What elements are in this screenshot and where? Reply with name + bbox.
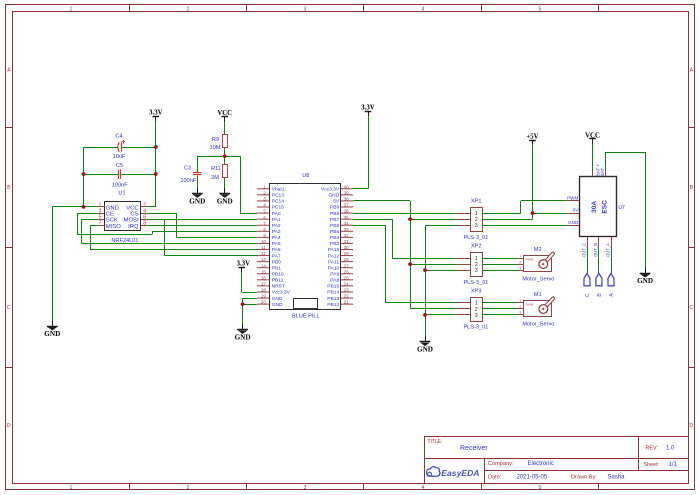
svg-text:SCK: SCK <box>106 218 118 224</box>
svg-text:26: 26 <box>344 269 350 274</box>
svg-text:PA0: PA0 <box>272 211 281 217</box>
svg-text:18: 18 <box>261 288 267 293</box>
svg-text:XP1: XP1 <box>471 199 482 205</box>
svg-text:TITLE:: TITLE: <box>428 439 443 445</box>
svg-text:10M: 10M <box>210 145 221 151</box>
svg-text:R9: R9 <box>212 137 219 143</box>
svg-text:24: 24 <box>344 282 350 287</box>
svg-text:5V: 5V <box>333 199 340 205</box>
svg-text:GND: GND <box>328 193 339 199</box>
svg-text:20: 20 <box>261 300 267 305</box>
svg-text:16: 16 <box>261 275 267 280</box>
svg-text:38: 38 <box>344 197 350 202</box>
svg-text:27: 27 <box>344 263 350 268</box>
svg-text:10: 10 <box>261 239 267 244</box>
svg-text:PB0: PB0 <box>272 259 282 265</box>
svg-text:PA6: PA6 <box>272 247 281 253</box>
svg-text:PC13: PC13 <box>272 193 285 199</box>
svg-text:8: 8 <box>143 221 146 227</box>
svg-text:PC15: PC15 <box>272 205 285 211</box>
svg-text:A: A <box>690 68 694 74</box>
svg-text:32: 32 <box>344 233 350 238</box>
svg-text:C4: C4 <box>115 134 122 140</box>
svg-text:EasyEDA: EasyEDA <box>441 468 479 478</box>
svg-text:A: A <box>609 293 615 297</box>
svg-text:1: 1 <box>70 7 73 13</box>
svg-text:GND: GND <box>235 333 251 341</box>
svg-text:U7: U7 <box>618 205 625 211</box>
svg-text:GND: GND <box>272 296 283 302</box>
svg-text:VCC: VCC <box>126 206 139 212</box>
svg-text:2021-05-05: 2021-05-05 <box>517 474 548 480</box>
svg-text:PB8: PB8 <box>330 211 340 217</box>
svg-text:PA1: PA1 <box>272 217 281 223</box>
svg-text:1.0: 1.0 <box>666 446 675 452</box>
svg-text:5: 5 <box>539 485 542 491</box>
svg-text:Company:: Company: <box>488 461 514 467</box>
svg-text:31: 31 <box>344 239 350 244</box>
svg-text:13: 13 <box>261 257 267 262</box>
svg-text:39: 39 <box>344 190 350 195</box>
svg-text:PB6: PB6 <box>330 223 340 229</box>
svg-text:VCC: VCC <box>217 110 232 117</box>
svg-text:C: C <box>585 293 591 297</box>
svg-text:4: 4 <box>422 7 425 13</box>
svg-text:10uF: 10uF <box>113 154 126 160</box>
svg-text:14: 14 <box>261 263 267 268</box>
svg-text:4: 4 <box>422 485 425 491</box>
svg-text:PB12: PB12 <box>327 302 339 308</box>
svg-text:GND: GND <box>189 197 205 205</box>
svg-text:3: 3 <box>475 313 478 319</box>
svg-text:U8: U8 <box>302 173 309 179</box>
svg-text:PA7: PA7 <box>272 253 281 259</box>
svg-text:22: 22 <box>344 294 350 299</box>
svg-text:Motor_Servo: Motor_Servo <box>522 322 554 328</box>
svg-text:GND: GND <box>106 206 119 212</box>
svg-text:Date:: Date: <box>488 474 502 480</box>
svg-text:Sasha: Sasha <box>608 474 626 480</box>
svg-text:GND: GND <box>272 302 283 308</box>
svg-text:R11: R11 <box>211 166 221 172</box>
svg-text:21: 21 <box>344 300 350 305</box>
svg-text:37: 37 <box>344 203 350 208</box>
svg-text:28: 28 <box>344 257 350 262</box>
svg-text:30: 30 <box>344 245 350 250</box>
svg-text:A: A <box>7 68 11 74</box>
svg-text:GND: GND <box>417 346 433 354</box>
svg-text:2: 2 <box>519 260 521 264</box>
svg-text:1: 1 <box>475 256 478 262</box>
svg-text:PA3: PA3 <box>272 229 281 235</box>
svg-text:REV:: REV: <box>646 446 658 452</box>
svg-text:PB9: PB9 <box>330 205 340 211</box>
svg-text:+5V: +5V <box>526 133 538 140</box>
svg-text:40: 40 <box>344 184 350 189</box>
svg-text:Vbat1: Vbat1 <box>272 187 285 193</box>
svg-text:B: B <box>7 185 11 191</box>
svg-text:XP3: XP3 <box>471 288 482 294</box>
svg-text:PB3: PB3 <box>330 241 340 247</box>
svg-text:PC14: PC14 <box>272 199 285 205</box>
svg-text:Vcc3.3V: Vcc3.3V <box>321 187 340 193</box>
svg-text:OUT_A: OUT_A <box>605 243 610 257</box>
svg-text:PLS-3_01: PLS-3_01 <box>463 325 488 331</box>
svg-text:XP2: XP2 <box>471 244 482 250</box>
svg-text:100nF: 100nF <box>112 183 128 189</box>
svg-text:3.3V: 3.3V <box>237 261 250 268</box>
svg-text:PA11: PA11 <box>328 259 340 265</box>
svg-text:2: 2 <box>187 7 190 13</box>
svg-text:PA9: PA9 <box>330 271 339 277</box>
svg-text:GND: GND <box>217 197 233 205</box>
svg-text:PA8: PA8 <box>330 278 339 284</box>
svg-text:PLS-3_01: PLS-3_01 <box>463 280 488 286</box>
svg-text:IRQ: IRQ <box>128 224 139 230</box>
svg-text:36: 36 <box>344 209 350 214</box>
svg-text:1: 1 <box>519 254 521 258</box>
svg-text:25: 25 <box>344 275 350 280</box>
svg-text:5V: 5V <box>573 208 580 213</box>
svg-text:1: 1 <box>475 301 478 307</box>
svg-text:1: 1 <box>519 299 521 303</box>
svg-text:1/1: 1/1 <box>669 462 678 468</box>
svg-text:2: 2 <box>187 485 190 491</box>
svg-text:3: 3 <box>475 223 478 229</box>
svg-text:6: 6 <box>143 215 146 221</box>
svg-text:M1: M1 <box>534 292 542 298</box>
svg-text:D: D <box>689 423 693 429</box>
svg-text:3M: 3M <box>211 175 219 181</box>
svg-text:D: D <box>7 423 11 429</box>
svg-text:3.3V: 3.3V <box>149 110 162 117</box>
svg-text:1: 1 <box>99 203 102 209</box>
svg-text:BAT -: BAT - <box>600 165 605 177</box>
svg-text:33: 33 <box>344 227 350 232</box>
svg-text:PA5: PA5 <box>272 241 281 247</box>
svg-text:Motor_Servo: Motor_Servo <box>522 277 554 283</box>
svg-text:B: B <box>690 185 694 191</box>
svg-text:PB13: PB13 <box>327 296 339 302</box>
svg-text:NRF24L01: NRF24L01 <box>111 238 138 244</box>
svg-text:2: 2 <box>143 203 146 209</box>
svg-text:23: 23 <box>344 288 350 293</box>
svg-text:MOSI: MOSI <box>124 218 139 224</box>
svg-text:U1: U1 <box>118 191 125 197</box>
svg-text:GND: GND <box>637 277 653 285</box>
svg-text:Drawn By:: Drawn By: <box>571 474 597 480</box>
svg-text:35: 35 <box>344 215 350 220</box>
svg-text:PB5: PB5 <box>330 229 340 235</box>
svg-text:5: 5 <box>539 7 542 13</box>
svg-text:PB15: PB15 <box>327 284 339 290</box>
svg-text:3: 3 <box>304 485 307 491</box>
svg-text:NRST: NRST <box>272 284 285 290</box>
svg-text:PA4: PA4 <box>272 235 281 241</box>
svg-text:GND: GND <box>568 220 579 225</box>
svg-text:30A: 30A <box>591 201 598 213</box>
svg-text:PB7: PB7 <box>330 217 340 223</box>
svg-text:2: 2 <box>519 305 521 309</box>
svg-text:BLUE PILL: BLUE PILL <box>292 313 320 319</box>
svg-text:ESC: ESC <box>602 200 609 214</box>
svg-text:PB14: PB14 <box>327 290 339 296</box>
svg-text:PWM: PWM <box>526 302 534 306</box>
svg-text:3.3V: 3.3V <box>361 105 374 112</box>
svg-text:PA12: PA12 <box>328 253 340 259</box>
svg-text:PB10: PB10 <box>272 271 284 277</box>
svg-text:PA2: PA2 <box>272 223 281 229</box>
svg-text:1: 1 <box>475 211 478 217</box>
svg-text:5: 5 <box>99 215 102 221</box>
svg-text:11: 11 <box>261 245 266 250</box>
svg-text:3: 3 <box>475 268 478 274</box>
svg-text:15: 15 <box>261 269 267 274</box>
svg-text:Vcc3.3V: Vcc3.3V <box>272 290 291 296</box>
svg-text:OUT_C: OUT_C <box>581 243 586 257</box>
svg-text:Sheet:: Sheet: <box>644 462 660 468</box>
svg-text:PB11: PB11 <box>272 278 284 284</box>
svg-text:GND: GND <box>44 330 60 338</box>
svg-text:29: 29 <box>344 251 350 256</box>
svg-text:1: 1 <box>70 485 73 491</box>
svg-text:PLS-3_01: PLS-3_01 <box>463 235 488 241</box>
svg-text:12: 12 <box>261 251 267 256</box>
svg-text:17: 17 <box>261 282 267 287</box>
svg-text:MISO: MISO <box>106 224 121 230</box>
svg-text:PB4: PB4 <box>330 235 340 241</box>
svg-text:PA15: PA15 <box>328 247 340 253</box>
svg-text:B: B <box>597 293 603 297</box>
svg-text:C5: C5 <box>116 163 123 169</box>
svg-text:C: C <box>7 305 11 311</box>
svg-text:100nF: 100nF <box>180 178 196 184</box>
svg-text:3: 3 <box>519 266 521 270</box>
svg-text:Receiver: Receiver <box>460 445 488 452</box>
svg-text:PB1: PB1 <box>272 265 282 271</box>
svg-text:3: 3 <box>519 311 521 315</box>
svg-text:7: 7 <box>99 221 102 227</box>
svg-text:C3: C3 <box>184 165 191 171</box>
svg-text:34: 34 <box>344 221 350 226</box>
svg-text:Electronic: Electronic <box>528 461 554 467</box>
svg-text:VCC: VCC <box>585 132 600 139</box>
svg-text:PWM: PWM <box>526 258 534 262</box>
svg-text:3: 3 <box>304 7 307 13</box>
svg-text:PWM: PWM <box>567 196 578 201</box>
svg-text:PA10: PA10 <box>328 265 340 271</box>
svg-text:C: C <box>689 305 693 311</box>
svg-text:M2: M2 <box>534 247 542 253</box>
svg-text:OUT_B: OUT_B <box>593 243 598 257</box>
svg-text:19: 19 <box>261 294 267 299</box>
